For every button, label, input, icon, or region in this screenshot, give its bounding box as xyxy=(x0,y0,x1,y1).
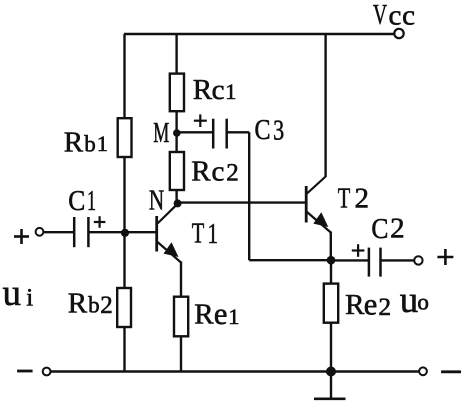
capacitor C1 polarity + xyxy=(94,216,106,228)
svg-text:u: u xyxy=(3,273,22,314)
svg-text:R: R xyxy=(193,74,213,106)
Vcc terminal xyxy=(394,29,403,38)
wire output junction to C2 xyxy=(331,259,369,261)
bottom-right terminal xyxy=(419,367,427,375)
input terminal xyxy=(36,228,44,236)
wire C3 right plate to corner xyxy=(227,131,250,133)
wire Re1 to bottom rail xyxy=(180,337,182,372)
svg-text:V: V xyxy=(373,0,387,31)
resistor Rc2 xyxy=(170,152,184,190)
svg-text:R: R xyxy=(191,156,211,188)
svg-text:1: 1 xyxy=(97,131,108,156)
wire C1 to base junction xyxy=(88,231,156,233)
bottom-left - sign xyxy=(17,370,32,373)
svg-text:R: R xyxy=(194,299,214,331)
wire node N to T2 base xyxy=(178,201,307,203)
wire C3 vertical drop xyxy=(248,132,250,260)
input + sign xyxy=(14,229,29,244)
wire Re2 to bottom rail xyxy=(330,323,332,372)
resistor Rb1 xyxy=(118,118,132,157)
resistor Re1 xyxy=(174,297,188,337)
node N junction dot xyxy=(174,199,182,207)
bottom-left terminal xyxy=(43,368,51,376)
svg-text:R: R xyxy=(68,287,88,319)
svg-text:C: C xyxy=(371,213,388,245)
node ground junction dot xyxy=(326,367,336,377)
svg-text:u: u xyxy=(400,280,419,321)
capacitor C3 polarity + xyxy=(194,114,207,127)
svg-text:M: M xyxy=(153,117,169,149)
svg-text:o: o xyxy=(417,289,429,314)
svg-text:T: T xyxy=(192,218,205,250)
svg-text:c: c xyxy=(402,0,415,31)
transistor T1 xyxy=(157,204,181,263)
svg-text:c: c xyxy=(212,74,225,106)
wire T1 emitter vertical to Re1 xyxy=(180,262,182,298)
output + sign xyxy=(437,249,453,265)
capacitor C1 plates xyxy=(74,217,88,247)
wire left vertical (Rb1/Rb2 branch) xyxy=(123,34,125,372)
capacitor C2 polarity + xyxy=(352,244,365,257)
svg-text:c: c xyxy=(389,0,402,31)
svg-text:b: b xyxy=(88,293,100,318)
svg-text:T: T xyxy=(338,183,351,215)
svg-text:1: 1 xyxy=(225,79,236,104)
svg-text:R: R xyxy=(64,127,84,159)
svg-text:i: i xyxy=(26,284,33,311)
ground symbol bar xyxy=(314,397,346,400)
resistor Rc1 xyxy=(170,74,184,112)
svg-text:1: 1 xyxy=(228,304,239,329)
wire C3 drop to output junction xyxy=(249,259,331,261)
node M junction dot xyxy=(173,129,181,137)
node base junction dot (C1/Rb1/Rb2) xyxy=(121,229,129,237)
svg-text:3: 3 xyxy=(273,114,284,146)
output terminal xyxy=(414,256,422,264)
svg-text:1: 1 xyxy=(208,218,219,250)
ground stub wire xyxy=(330,372,332,399)
node output junction dot (T2 emitter) xyxy=(327,256,336,265)
svg-text:C: C xyxy=(68,185,85,217)
svg-text:2: 2 xyxy=(378,292,391,321)
svg-text:2: 2 xyxy=(100,292,113,319)
resistor Re2 xyxy=(324,284,338,323)
svg-text:b: b xyxy=(84,131,96,156)
capacitor C2 plates xyxy=(369,248,381,277)
wire M node to C3 xyxy=(177,131,214,133)
svg-text:e: e xyxy=(364,287,378,321)
capacitor C3 plates xyxy=(213,119,227,149)
svg-text:C: C xyxy=(255,114,271,146)
wire input terminal to C1 xyxy=(43,231,74,233)
wire middle vertical (Rc1/Rc2 branch) xyxy=(175,34,177,203)
transistor T2 xyxy=(306,177,331,233)
svg-text:2: 2 xyxy=(226,160,239,187)
wire bottom rail xyxy=(51,370,419,372)
svg-text:2: 2 xyxy=(390,213,405,245)
wire T2 collector vertical xyxy=(324,34,326,177)
wire C2 to output terminal xyxy=(381,259,415,261)
wire junction to Re2 xyxy=(330,260,332,283)
svg-text:2: 2 xyxy=(355,183,370,215)
svg-text:R: R xyxy=(345,289,365,321)
svg-text:N: N xyxy=(149,184,164,216)
wire T2 emitter vertical to junction xyxy=(330,232,332,261)
resistor Rb2 xyxy=(117,288,131,327)
wire top supply rail xyxy=(124,33,395,35)
bottom-right - sign xyxy=(441,370,461,373)
svg-text:c: c xyxy=(212,155,225,187)
svg-text:1: 1 xyxy=(87,185,96,217)
svg-text:e: e xyxy=(214,297,228,331)
